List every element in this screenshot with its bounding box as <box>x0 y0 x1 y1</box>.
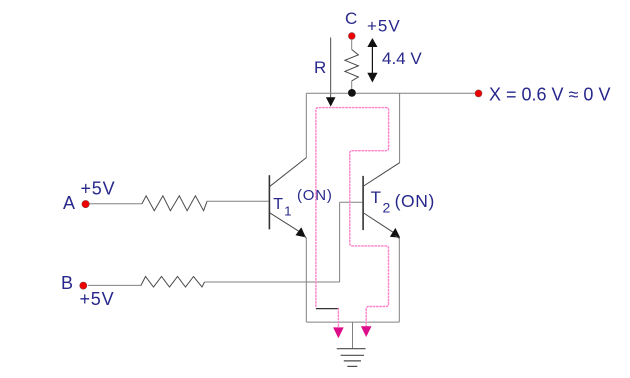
svg-text:T: T <box>273 196 283 213</box>
ground symbol <box>337 349 366 367</box>
svg-text:+5V: +5V <box>81 179 116 199</box>
wire A input <box>89 203 142 205</box>
svg-text:(ON): (ON) <box>395 191 435 211</box>
wire B resistor to riser <box>205 281 340 283</box>
resistor B (horizontal zigzag) <box>141 277 205 288</box>
node C terminal dot <box>348 33 355 40</box>
transistor T2 emitter lead <box>364 213 393 232</box>
svg-text:R: R <box>314 58 326 77</box>
wire right rail upper (top rail to T2 collector) <box>399 93 401 162</box>
transistor T2 emitter arrow head <box>390 228 400 238</box>
wire B riser up to T2 base lead <box>339 202 341 282</box>
wire bottom rail <box>306 321 399 323</box>
svg-text:+5V: +5V <box>367 17 401 36</box>
wire ground stem <box>352 322 354 349</box>
svg-text:4.4 V: 4.4 V <box>382 49 422 68</box>
node X terminal dot <box>475 90 482 97</box>
4.4V double arrow top head <box>367 38 377 47</box>
wire right rail lower (T2 emitter to bottom rail) <box>398 239 400 323</box>
svg-text:T: T <box>371 188 381 207</box>
svg-text:+5V: +5V <box>80 289 115 309</box>
wire left rail lower (T1 emitter to bottom rail) <box>305 238 307 322</box>
wire B input <box>88 284 141 286</box>
node junction dot (R/collector rail) <box>348 89 356 97</box>
current arrow for R (head) <box>326 97 336 106</box>
node A terminal dot <box>82 200 89 207</box>
4.4V double arrow bottom head <box>367 73 377 83</box>
svg-text:C: C <box>345 9 357 28</box>
wire left rail upper (top rail to T1 collector) <box>305 93 307 157</box>
wire T1 emitter to left rail <box>305 236 307 238</box>
current arrow into ground left (magenta) <box>333 327 344 338</box>
wire current path left step (black) <box>316 308 339 310</box>
node B terminal dot <box>80 282 87 289</box>
svg-text:(ON): (ON) <box>297 187 333 204</box>
4.4V double arrow line <box>371 44 373 75</box>
current arrow into ground right (magenta) <box>361 326 372 337</box>
transistor T1 emitter lead <box>270 213 301 232</box>
transistor T1 emitter arrow head <box>296 227 306 237</box>
transistor T2 base bar <box>362 176 364 230</box>
wire C dot to resistor R <box>351 39 353 50</box>
current arrow for R (line) <box>330 38 332 99</box>
resistor R (vertical zigzag) <box>345 50 359 81</box>
svg-text:1: 1 <box>284 203 291 218</box>
wire T2 emitter to right rail <box>395 235 400 238</box>
svg-text:X = 0.6 V ≈ 0 V: X = 0.6 V ≈ 0 V <box>489 85 610 105</box>
current path left branch (pink) <box>337 308 339 328</box>
current path highlight through T1/T2 (pink) <box>316 108 389 327</box>
svg-text:A: A <box>63 193 75 213</box>
wire T2 base lead <box>340 201 363 203</box>
svg-text:2: 2 <box>383 200 391 216</box>
resistor A (horizontal zigzag) <box>142 196 207 211</box>
transistor T1 collector lead <box>270 158 307 187</box>
transistor T1 base bar <box>268 175 270 229</box>
wire A resistor to T1 base <box>207 200 269 202</box>
transistor T2 collector lead <box>364 163 400 186</box>
svg-text:B: B <box>61 273 73 293</box>
wire top rail <box>306 92 478 94</box>
wire resistor R to node <box>351 81 353 92</box>
